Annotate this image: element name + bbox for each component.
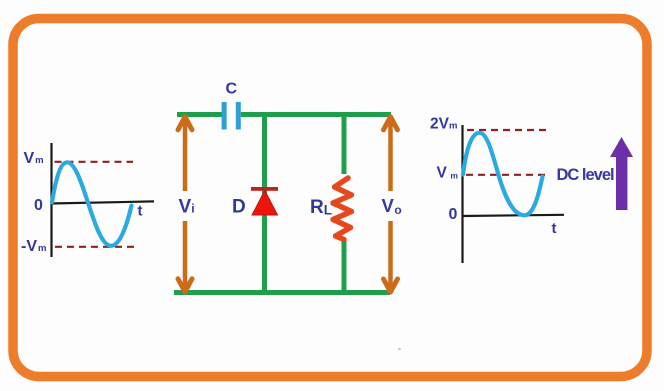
- wire: diode branch vertical: [262, 112, 267, 293]
- svg-text:t: t: [552, 220, 557, 237]
- svg-text:DC level: DC level: [557, 166, 615, 184]
- resistor RL zigzag: [333, 178, 352, 240]
- input -Vm dashed level line: [55, 246, 135, 248]
- output 2Vm dashed level line: [467, 129, 547, 131]
- faint artifact mark: [398, 348, 401, 350]
- DC shift up arrow (purple): [610, 137, 633, 210]
- input waveform t-axis: [51, 201, 155, 203]
- wire: RL branch bottom segment: [342, 241, 347, 293]
- svg-text:0: 0: [34, 197, 43, 214]
- capacitor C: [222, 102, 241, 130]
- wire: RL branch top segment: [342, 112, 347, 174]
- wire: top rail right segment: [241, 112, 391, 117]
- svg-text:C: C: [226, 80, 238, 97]
- svg-text:t: t: [138, 203, 143, 220]
- input +Vm dashed level line: [55, 161, 134, 163]
- output waveform y-axis: [461, 125, 463, 263]
- input sine waveform: [52, 162, 132, 246]
- input waveform y-axis: [50, 143, 52, 257]
- diode D (cathode bar + triangle): [251, 187, 278, 215]
- output waveform t-axis: [462, 215, 565, 216]
- Vi arrow (input voltage, double-headed): [178, 117, 192, 292]
- wire: top rail left segment: [177, 112, 222, 117]
- svg-text:0: 0: [449, 206, 458, 223]
- wire: bottom rail: [174, 290, 390, 295]
- Vo arrow (output voltage, double-headed): [384, 117, 398, 292]
- output sine waveform: [463, 133, 543, 216]
- output DC level dashed line: [466, 174, 549, 176]
- svg-text:D: D: [232, 197, 246, 218]
